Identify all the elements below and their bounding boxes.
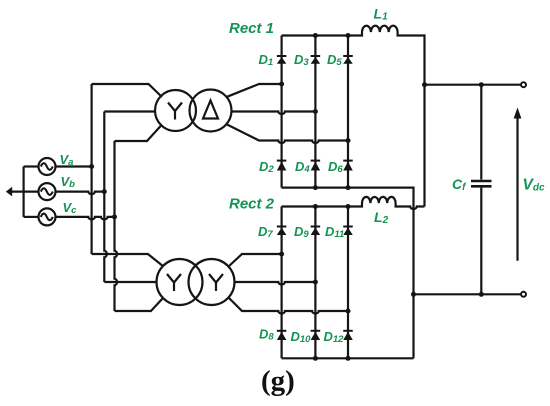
svg-text:D12: D12 [324,329,345,345]
svg-text:Vc: Vc [63,200,78,216]
svg-text:Cf: Cf [452,176,467,193]
svg-text:Rect 1: Rect 1 [229,20,274,37]
svg-text:(g): (g) [261,365,295,397]
svg-text:D2: D2 [259,159,274,175]
svg-text:D9: D9 [294,224,309,240]
svg-text:L1: L1 [374,6,389,23]
svg-text:D3: D3 [294,52,309,68]
svg-text:D11: D11 [325,224,344,240]
svg-text:D6: D6 [328,159,343,175]
svg-text:Vb: Vb [61,174,76,190]
svg-text:D1: D1 [259,52,274,68]
svg-text:D7: D7 [258,224,273,240]
svg-text:D10: D10 [291,329,312,345]
svg-text:Va: Va [60,152,74,168]
svg-text:D8: D8 [259,327,274,343]
svg-text:Vdc: Vdc [523,177,545,194]
svg-text:D4: D4 [295,159,310,175]
svg-text:Rect 2: Rect 2 [229,196,275,213]
svg-text:D5: D5 [327,52,342,68]
svg-text:L2: L2 [374,209,389,226]
